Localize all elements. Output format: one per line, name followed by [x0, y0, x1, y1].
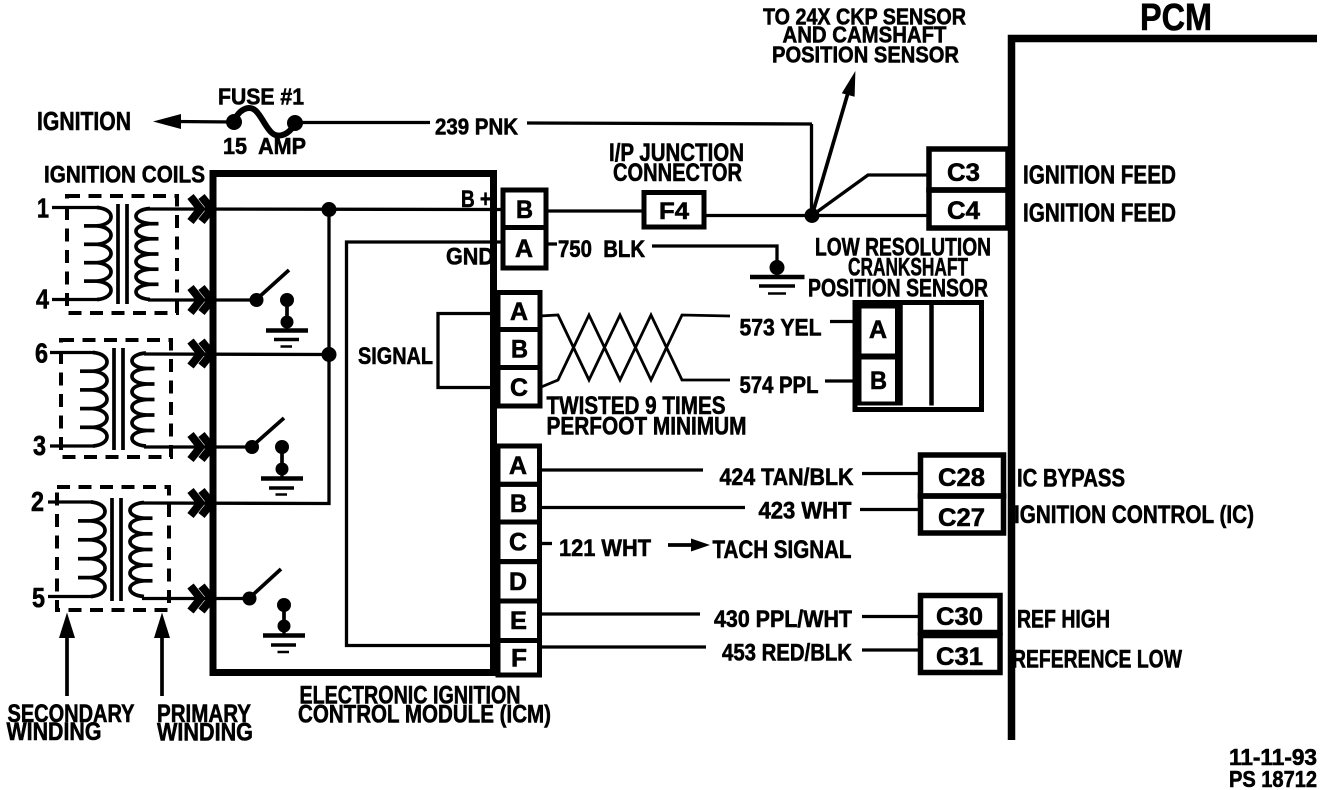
svg-text:A: A: [509, 452, 527, 480]
wire 573 to sensor: [830, 320, 857, 323]
pin E (lower conn): [498, 601, 540, 641]
svg-text:A: A: [515, 235, 533, 263]
pin D (lower conn): [498, 562, 540, 601]
svg-text:WINDING: WINDING: [7, 718, 102, 746]
svg-text:C27: C27: [938, 504, 985, 532]
tick C pin: [540, 542, 553, 545]
svg-text:REFERENCE LOW: REFERENCE LOW: [1012, 646, 1182, 674]
svg-text:B: B: [516, 196, 533, 224]
ground G5: [263, 626, 305, 652]
arrow primary winding pointer: [154, 613, 170, 697]
svg-text:PS 18712: PS 18712: [1229, 766, 1317, 790]
svg-text:F: F: [511, 645, 527, 673]
fuse F1 symbol: [226, 108, 303, 136]
wire B+ row1: [148, 207, 503, 211]
svg-text:B: B: [870, 367, 887, 395]
wire junction to C3: [812, 175, 929, 216]
chevron row1: [191, 197, 212, 222]
wire coil2 primary to switch: [144, 445, 246, 448]
wire coil3 secondary lead: [48, 500, 93, 503]
wire 453 right: [862, 648, 921, 651]
wire coil2 secondary return: [50, 444, 95, 447]
wire row2: [142, 209, 329, 504]
ICM module box: [213, 174, 494, 673]
chevron row3: [191, 435, 212, 460]
wire coil1 secondary lead: [52, 206, 99, 209]
svg-text:573 YEL: 573 YEL: [740, 315, 822, 342]
wire 430 left: [540, 612, 701, 615]
coil T2 secondary winding: [93, 353, 107, 447]
switch Q3: [245, 418, 289, 476]
coil T1 primary winding: [136, 209, 150, 300]
svg-text:FUSE #1: FUSE #1: [218, 84, 304, 110]
svg-text:2: 2: [31, 486, 44, 517]
svg-text:1: 1: [37, 193, 49, 224]
svg-text:GND: GND: [446, 244, 494, 271]
arrow tach: [668, 539, 710, 552]
wire coil3 primary to switch: [142, 597, 243, 600]
wire 430 right: [862, 615, 921, 618]
svg-text:CONTROL MODULE (ICM): CONTROL MODULE (ICM): [298, 701, 551, 729]
svg-text:121 WHT: 121 WHT: [559, 535, 651, 562]
svg-text:A: A: [869, 316, 887, 344]
coil T3 primary winding: [130, 503, 144, 597]
svg-text:PERFOOT MINIMUM: PERFOOT MINIMUM: [547, 413, 747, 441]
coil T2 primary winding: [132, 353, 146, 446]
svg-text:C31: C31: [936, 643, 983, 671]
svg-text:E: E: [510, 607, 527, 635]
svg-text:C3: C3: [947, 159, 980, 187]
svg-text:A: A: [510, 298, 528, 326]
svg-text:POSITION SENSOR: POSITION SENSOR: [772, 42, 959, 68]
svg-text:C4: C4: [947, 197, 980, 225]
pin C (signal conn): [498, 368, 540, 407]
svg-text:C: C: [509, 529, 527, 557]
svg-text:B +: B +: [461, 186, 491, 213]
svg-text:C: C: [510, 374, 528, 402]
svg-text:PCM: PCM: [1140, 0, 1212, 39]
wire F4 to C4: [704, 214, 929, 217]
svg-text:6: 6: [35, 338, 48, 369]
coil T2 core: [114, 348, 123, 450]
svg-text:IGNITION: IGNITION: [37, 106, 131, 136]
connector C31: [921, 636, 1001, 673]
svg-text:423 WHT: 423 WHT: [759, 498, 852, 525]
junction node row6: [322, 347, 337, 362]
pin C (lower conn): [498, 522, 540, 562]
wire 453 left: [540, 645, 707, 648]
svg-text:IGNITION CONTROL (IC): IGNITION CONTROL (IC): [1014, 501, 1254, 529]
svg-text:TACH SIGNAL: TACH SIGNAL: [713, 536, 852, 564]
svg-text:B: B: [510, 490, 527, 518]
arrow to ignition: [153, 114, 234, 129]
wire coil1 secondary return: [52, 298, 99, 301]
svg-text:750 BLK: 750 BLK: [558, 236, 646, 263]
wire coil2 secondary lead: [50, 351, 95, 354]
svg-text:574 PPL: 574 PPL: [740, 372, 819, 399]
twisted pair wires: [540, 315, 730, 388]
connector C30: [921, 596, 1001, 633]
svg-text:POSITION SENSOR: POSITION SENSOR: [808, 275, 988, 303]
switch Q5: [243, 569, 292, 633]
coil box T1 (dashed): [67, 196, 177, 313]
pin B (lower conn): [498, 484, 540, 522]
pin A (signal conn): [498, 293, 540, 330]
connector C27: [921, 496, 1004, 533]
crank sensor connector: [855, 303, 982, 410]
wire row6: [144, 352, 329, 356]
svg-text:REF HIGH: REF HIGH: [1017, 606, 1110, 634]
wire 423 right: [860, 508, 921, 511]
wire 239 PNK: [295, 123, 812, 216]
svg-text:IGNITION FEED: IGNITION FEED: [1023, 160, 1176, 190]
ground G4: [266, 322, 308, 347]
coil T3 secondary winding: [91, 502, 105, 597]
chevron row6: [191, 341, 212, 366]
switch Q4: [250, 270, 295, 329]
chevron row5: [191, 586, 212, 611]
svg-text:B: B: [511, 336, 528, 364]
coil T3 core: [112, 498, 121, 601]
wire coil3 secondary return: [48, 595, 93, 598]
svg-text:239 PNK: 239 PNK: [435, 114, 518, 140]
connector C28: [921, 455, 1004, 496]
svg-text:CONNECTOR: CONNECTOR: [613, 159, 742, 187]
svg-text:C28: C28: [938, 464, 985, 492]
coil T1 secondary winding: [97, 208, 111, 300]
pin F (lower conn): [498, 641, 540, 676]
svg-text:IC BYPASS: IC BYPASS: [1017, 465, 1125, 493]
wire 574 to sensor: [825, 379, 857, 382]
coil T1 core: [118, 204, 127, 304]
arrow secondary winding pointer: [59, 613, 75, 697]
connector C4: [929, 190, 1008, 228]
connector F4: [644, 193, 704, 228]
svg-text:D: D: [509, 568, 527, 596]
connector C3: [929, 149, 1008, 190]
svg-text:SIGNAL: SIGNAL: [358, 343, 433, 370]
chevron row2: [191, 491, 212, 516]
PCM boundary: [1012, 39, 1318, 741]
pin B (signal conn): [498, 330, 540, 368]
chevron row4: [191, 288, 212, 313]
svg-text:5: 5: [32, 582, 45, 613]
svg-text:453 RED/BLK: 453 RED/BLK: [722, 640, 853, 667]
svg-text:F4: F4: [659, 198, 690, 225]
coil box T3 (dashed): [57, 487, 169, 610]
wire coil1 primary to switch: [148, 298, 250, 301]
wire 424 left: [540, 468, 704, 471]
tick A pin: [546, 242, 557, 245]
signal bracket: [438, 314, 498, 388]
wire arrow to 24X CKP sensor: [812, 71, 855, 216]
svg-text:IGNITION FEED: IGNITION FEED: [1023, 198, 1176, 228]
pin B (ICM top): [503, 190, 546, 228]
svg-text:4: 4: [36, 284, 49, 315]
wire 750 BLK to ground: [652, 246, 777, 262]
svg-text:424 TAN/BLK: 424 TAN/BLK: [720, 464, 855, 491]
wire GND inner: [347, 242, 504, 646]
svg-text:430 PPL/WHT: 430 PPL/WHT: [714, 606, 852, 633]
svg-text:15 AMP: 15 AMP: [223, 133, 306, 159]
svg-text:WINDING: WINDING: [157, 719, 253, 747]
svg-text:IGNITION COILS: IGNITION COILS: [44, 162, 205, 189]
pin A (ICM top): [503, 228, 546, 269]
junction node B+: [322, 202, 337, 217]
wire 424 right: [862, 472, 921, 475]
wire B pin to F4: [546, 209, 644, 212]
wire 423 left: [540, 506, 746, 509]
ground G3: [261, 469, 303, 495]
pin A (lower conn): [498, 446, 540, 484]
svg-text:3: 3: [33, 430, 46, 461]
ground G750: [750, 260, 805, 294]
junction node ignition feed: [805, 208, 820, 223]
coil box T2 (dashed): [61, 340, 171, 457]
svg-text:C30: C30: [936, 603, 983, 631]
